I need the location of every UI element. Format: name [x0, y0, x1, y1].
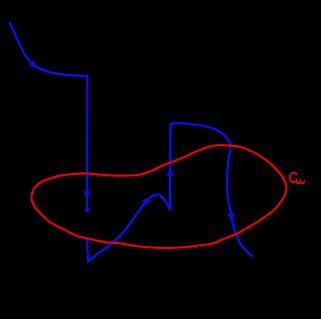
terminal dot of trajectory 1 (equilibrium point): [85, 208, 89, 212]
arrowhead on trajectory 1 vertical drop (pointing down): [84, 190, 91, 198]
trajectory 2 (blue V, bump, vertical rise, top arc, right descent): [87, 123, 252, 261]
arrowhead on trajectory 2 right descent (pointing down): [227, 212, 234, 220]
arrowhead on trajectory 2 vertical rise (pointing up): [167, 169, 174, 177]
arrowhead on trajectory 1 sloped part: [29, 60, 37, 67]
arrowhead on trajectory 2 rising bump (pointing up-right): [142, 198, 150, 206]
red closed limit-set curve (bean shape): [31, 145, 286, 248]
red label C-omega beside right edge of limit set: [290, 173, 305, 184]
trajectory 1 (blue curve from top-left, corner, vertical drop): [10, 23, 87, 208]
